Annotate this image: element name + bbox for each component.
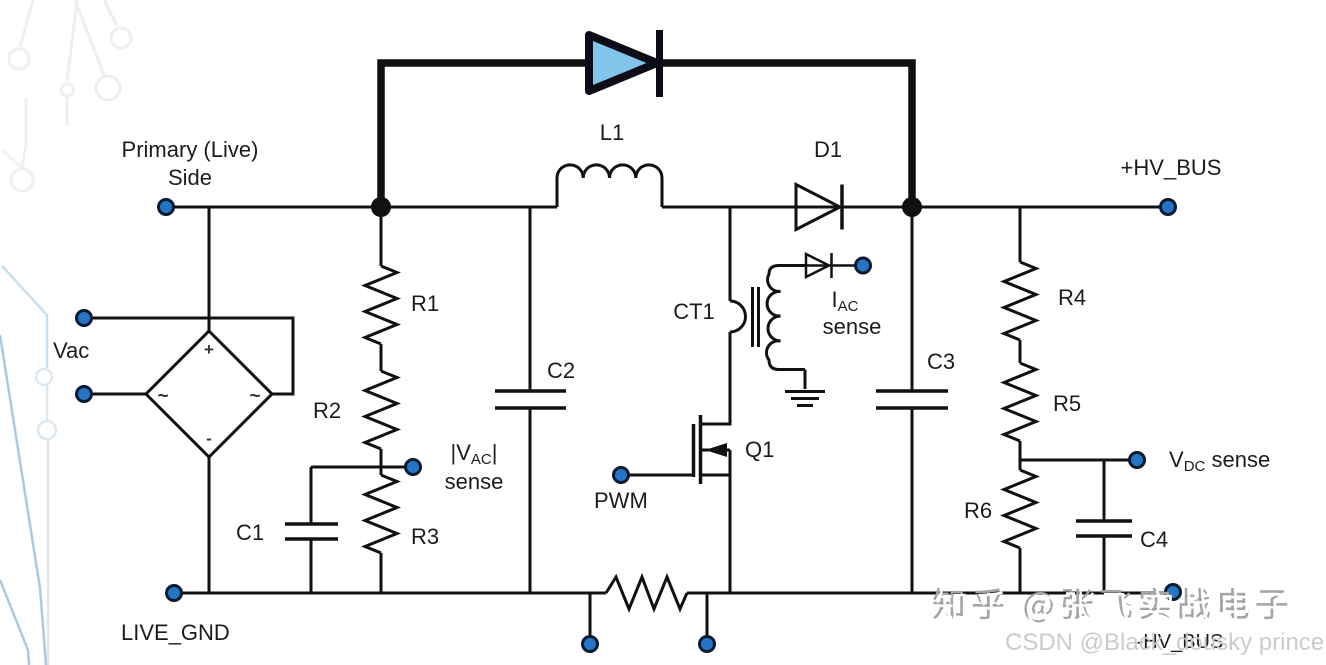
wire: Vac bottom terminal to bridge left AC vertex bbox=[84, 393, 146, 396]
node junction dot (left, thick loop to bus) bbox=[371, 197, 391, 217]
decorative pcb traces top-left (not labeled further; decorative) bbox=[2, 0, 131, 191]
svg-text:~: ~ bbox=[157, 386, 168, 407]
terminal shunt kelvin right bbox=[700, 637, 715, 652]
wire: shunt kelvin tap right bbox=[706, 593, 709, 637]
svg-text:CT1: CT1 bbox=[673, 299, 715, 324]
svg-text:C4: C4 bbox=[1140, 527, 1168, 552]
wire: |VAC| sense tap from C1 top across chain to sense terminal bbox=[311, 466, 406, 469]
svg-text:C2: C2 bbox=[547, 358, 575, 383]
svg-text:R2: R2 bbox=[313, 398, 341, 423]
resistor R2 bbox=[365, 371, 397, 449]
terminal LIVE_GND bbox=[167, 586, 182, 601]
diode IAC sense cathode bar bbox=[830, 253, 833, 278]
transistor Q1 channel bar bbox=[699, 415, 703, 484]
resistor R6 bbox=[1004, 470, 1036, 548]
wire: C3 leads from node to bottom bus bbox=[911, 207, 914, 593]
svg-text:~: ~ bbox=[249, 386, 260, 407]
wire: Q1 body-diode arrow line bbox=[700, 449, 730, 452]
resistor R3 bbox=[365, 475, 397, 553]
terminal Primary (Live) Side bbox=[159, 200, 174, 215]
terminal PWM bbox=[614, 468, 629, 483]
wire: thick bypass top run from big diode cathode to right riser bbox=[659, 63, 912, 210]
capacitor C4 leads bbox=[1103, 460, 1106, 593]
svg-text:L1: L1 bbox=[600, 120, 624, 145]
wire: VDC sense tap bbox=[1020, 459, 1130, 462]
ground (CT1 secondary) bbox=[785, 392, 825, 406]
capacitor C2 plates bbox=[495, 391, 566, 408]
capacitor C1 plates bbox=[285, 524, 338, 539]
wire: Q1 source connection bbox=[700, 474, 730, 477]
diode big bypass (blue) triangle bbox=[589, 35, 657, 91]
terminal -HV_BUS bbox=[1166, 585, 1181, 600]
transformer CT1 core bars bbox=[753, 287, 759, 347]
transformer CT1 secondary winding bbox=[767, 266, 806, 370]
svg-text:+: + bbox=[204, 340, 214, 359]
svg-text:PWM: PWM bbox=[594, 488, 648, 513]
watermark zhihu text (gray with white emboss) bbox=[933, 588, 1287, 623]
wire: Q1 source trunk down to bottom bus bbox=[729, 450, 732, 593]
svg-text:R1: R1 bbox=[411, 291, 439, 316]
node junction dot (right, thick loop to bus) bbox=[902, 197, 922, 217]
transformer CT1 primary half-turn bbox=[730, 301, 745, 332]
wire: Vac top terminal to bridge right AC vertex bbox=[84, 318, 293, 394]
wire: R1 R2 R3 divider chain leads bbox=[380, 207, 383, 593]
terminal |VAC| sense bbox=[406, 460, 421, 475]
diode big bypass cathode bar bbox=[656, 30, 663, 97]
wire: IAC sense diode lead bbox=[806, 264, 858, 267]
inductor L1 bbox=[557, 165, 662, 207]
terminal Vac top bbox=[77, 311, 92, 326]
svg-text:R5: R5 bbox=[1053, 391, 1081, 416]
terminal IAC sense bbox=[856, 258, 871, 273]
diode D1 triangle bbox=[796, 185, 840, 230]
wire: R4 R5 R6 divider chain leads bbox=[1019, 207, 1022, 593]
transistor Q1 arrow head bbox=[705, 443, 727, 457]
resistor R5 bbox=[1004, 363, 1036, 441]
resistor R4 bbox=[1004, 262, 1036, 340]
resistor R1 bbox=[365, 266, 397, 344]
terminal VDC sense bbox=[1130, 453, 1145, 468]
wire: bridge - output lead down to bottom bus bbox=[208, 457, 211, 593]
svg-text:C3: C3 bbox=[927, 349, 955, 374]
svg-text:C1: C1 bbox=[236, 520, 264, 545]
svg-text:R3: R3 bbox=[411, 524, 439, 549]
terminal Vac bottom bbox=[77, 387, 92, 402]
svg-text:Q1: Q1 bbox=[745, 437, 774, 462]
wire: bridge + output lead up to top bus bbox=[208, 207, 211, 331]
svg-text:R4: R4 bbox=[1058, 285, 1086, 310]
svg-text:-: - bbox=[206, 429, 212, 448]
wire: bottom bus left section (LIVE_GND to shunt) bbox=[174, 592, 606, 595]
terminal +HV_BUS bbox=[1161, 200, 1176, 215]
wire: thick bypass loop left riser and top run to big diode anode bbox=[381, 63, 588, 210]
svg-text:Vac: Vac bbox=[53, 338, 89, 363]
svg-text:R6: R6 bbox=[964, 498, 992, 523]
wire: trunk from CT1 primary to Q1 drain bbox=[701, 332, 730, 424]
wire: bottom bus right section (shunt to -HV_BUS terminal) bbox=[687, 592, 1173, 595]
svg-text:D1: D1 bbox=[814, 137, 842, 162]
transistor Q1 gate bar bbox=[692, 424, 696, 477]
svg-text:CSDN @Black_dousky prince: CSDN @Black_dousky prince bbox=[1005, 629, 1324, 656]
capacitor C1 leads bbox=[310, 467, 313, 593]
wire: CT1 primary / Q1 drain trunk from top bus bbox=[729, 207, 732, 301]
wire: secondary bottom lead to ground bbox=[804, 370, 807, 390]
svg-text:LIVE_GND: LIVE_GND bbox=[121, 620, 230, 645]
wire: top bus right section (L1 to +HV_BUS terminal) bbox=[662, 206, 1168, 209]
bridge rectifier polarity marks bbox=[157, 340, 260, 448]
bridge rectifier BR1 diamond bbox=[146, 331, 272, 457]
resistor shunt (bottom bus) bbox=[606, 577, 687, 609]
diode IAC sense triangle bbox=[806, 254, 829, 277]
wire: shunt kelvin tap left bbox=[589, 593, 592, 637]
svg-text:sense: sense bbox=[445, 469, 504, 494]
capacitor C4 plates bbox=[1076, 521, 1132, 536]
svg-text:sense: sense bbox=[823, 314, 882, 339]
capacitor C2 leads bbox=[529, 207, 532, 593]
svg-text:+HV_BUS: +HV_BUS bbox=[1121, 155, 1222, 180]
wire: Q1 gate lead from PWM terminal bbox=[621, 474, 692, 477]
svg-text:Primary (Live): Primary (Live) bbox=[122, 137, 259, 162]
terminal shunt kelvin left bbox=[583, 637, 598, 652]
capacitor C3 plates bbox=[876, 391, 948, 408]
diode D1 cathode bar bbox=[840, 185, 844, 230]
svg-text:Side: Side bbox=[168, 165, 212, 190]
wire: top bus left section (Primary terminal to L1) bbox=[166, 206, 557, 209]
